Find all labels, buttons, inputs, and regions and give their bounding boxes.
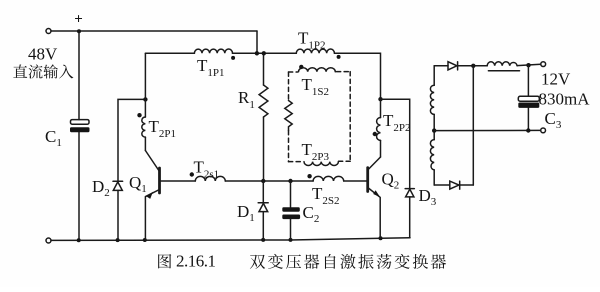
svg-text:D2: D2 [92, 177, 110, 199]
wire Q1 base [160, 180, 196, 182]
capacitor C2 [282, 181, 300, 240]
inductor T1S2 [299, 68, 336, 72]
diode rectifier bottom [450, 181, 474, 189]
core line filter choke [488, 70, 519, 72]
inductor T2P3 [304, 162, 338, 166]
node R1 top [262, 51, 266, 55]
inductor T2S2 [313, 176, 344, 181]
wire base to Q2 [344, 180, 368, 182]
node mid rail feed [255, 51, 259, 55]
wire secondary top [434, 65, 448, 67]
node bottom Q1 emitter [143, 238, 147, 242]
wire mid rail left [145, 52, 194, 54]
node T2s1 phase dot [190, 172, 194, 176]
svg-text:+: + [74, 12, 83, 28]
wire secondary bottom [434, 184, 450, 186]
inductor T1P1 [194, 49, 232, 53]
svg-text:Q2: Q2 [382, 170, 400, 192]
node T2P1 phase dot [137, 113, 141, 117]
svg-text:T1S2: T1S2 [302, 75, 330, 98]
label DC input Chinese [13, 64, 73, 78]
wire T2P1 branch from mid rail [144, 53, 146, 117]
node bottom C2 [289, 238, 293, 242]
dashed coupling box [289, 72, 351, 162]
inductor T1P2 [296, 49, 334, 53]
node D2 top junction [143, 97, 147, 101]
svg-text:T2P3: T2P3 [302, 140, 330, 163]
capacitor C1 [70, 31, 90, 240]
inductor T2P1 [142, 117, 146, 137]
svg-text:D1: D1 [237, 202, 255, 224]
wire to output + [517, 64, 541, 65]
diode D1 [258, 181, 268, 240]
terminal input - [46, 238, 51, 243]
node C3 top [526, 63, 530, 67]
node top junction [77, 29, 81, 33]
terminal output - [541, 128, 546, 133]
svg-text:C2: C2 [303, 203, 320, 225]
svg-text:Q1: Q1 [129, 173, 147, 195]
node T1P2 phase dot [337, 55, 341, 59]
transistor Q2 [368, 157, 381, 238]
node T2P2 top junction [378, 97, 382, 101]
wire top rail corner down [256, 31, 258, 53]
node C2 top junction [288, 179, 292, 183]
node T1S2 phase dot [299, 65, 303, 69]
svg-text:2.16.1: 2.16.1 [176, 252, 216, 271]
capacitor C3 [518, 65, 539, 130]
svg-text:830mA: 830mA [539, 89, 591, 108]
svg-text:T1P2: T1P2 [298, 29, 326, 52]
node center tap [432, 128, 436, 132]
wire bottom rail [51, 238, 410, 241]
inductor T2s1 [195, 176, 225, 181]
node bottom D1 [261, 238, 265, 242]
node bottom Q2 emitter [379, 236, 383, 240]
wire cathode vertical [472, 66, 474, 185]
node T2S2 phase dot [307, 174, 311, 178]
node R1 bottom junction [261, 179, 265, 183]
node bottom D2 [116, 238, 120, 242]
svg-text:C3: C3 [545, 109, 562, 131]
svg-text:C1: C1 [45, 127, 62, 149]
diode D2 [113, 181, 123, 240]
label caption tu [158, 254, 171, 268]
diode D3 [405, 189, 414, 238]
wire D2 top [118, 99, 145, 181]
node T1P1 phase dot [231, 56, 235, 60]
resistor R1 [259, 53, 268, 181]
inductor T2P2 [373, 99, 381, 157]
inductor filter choke [487, 62, 517, 66]
wire mid rail right + corner down [335, 53, 381, 99]
node bottom C1 [77, 238, 81, 242]
node C3 bottom [526, 128, 530, 132]
svg-text:48V: 48V [28, 45, 58, 64]
wire T2P1 to Q1 collector [144, 137, 146, 150]
node rectified junction [471, 64, 475, 68]
terminal output + [541, 62, 546, 67]
wire output mid [434, 129, 541, 131]
transformer secondary winding [430, 66, 434, 185]
svg-text:T2S2: T2S2 [312, 184, 340, 207]
svg-text:D3: D3 [419, 186, 437, 208]
transistor Q1 [145, 151, 159, 241]
svg-text:12V: 12V [541, 70, 571, 89]
resistor R feedback [285, 101, 292, 131]
svg-text:T1P1: T1P1 [197, 56, 225, 79]
terminal input + [46, 29, 51, 34]
wire top rail [51, 30, 257, 32]
svg-text:T2P1: T2P1 [149, 117, 177, 140]
svg-text:R1: R1 [238, 88, 255, 111]
wire mid rail center [233, 52, 297, 54]
wire base rail middle [225, 180, 313, 182]
diode rectifier top [448, 62, 487, 70]
label caption title Chinese [250, 254, 446, 269]
svg-text:T2P2: T2P2 [383, 111, 411, 134]
wire D3 top [381, 99, 410, 188]
